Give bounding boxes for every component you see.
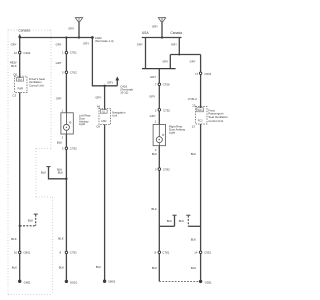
svg-text:BLK: BLK <box>167 219 172 223</box>
svg-text:BLK: BLK <box>58 237 63 241</box>
svg-text:BLK: BLK <box>57 140 62 144</box>
svg-text:BLK: BLK <box>191 266 196 270</box>
svg-text:(Terminals 1-4): (Terminals 1-4) <box>95 39 114 43</box>
svg-text:Canada: Canada <box>18 28 30 32</box>
svg-text:Light: Light <box>169 131 175 135</box>
svg-text:BLK: BLK <box>152 266 157 270</box>
svg-text:G601: G601 <box>24 280 31 284</box>
svg-text:GRY: GRY <box>162 59 168 63</box>
svg-text:BLK: BLK <box>12 266 17 270</box>
svg-text:GRY: GRY <box>171 42 177 46</box>
svg-text:PC3: PC3 <box>198 120 203 123</box>
svg-text:C752: C752 <box>163 109 170 113</box>
svg-text:C8: C8 <box>96 125 100 129</box>
svg-text:GRY: GRY <box>83 42 89 46</box>
svg-text:C792: C792 <box>70 147 77 151</box>
svg-text:GRY: GRY <box>190 59 196 63</box>
svg-text:GRY: GRY <box>107 81 113 85</box>
svg-text:13: 13 <box>192 125 196 129</box>
svg-text:BLK: BLK <box>59 266 64 270</box>
svg-text:GRY: GRY <box>150 114 156 118</box>
svg-text:LT BLU: LT BLU <box>188 97 197 101</box>
svg-text:BLK: BLK <box>96 265 101 269</box>
svg-text:BLK: BLK <box>152 152 157 156</box>
svg-text:C782: C782 <box>163 167 170 171</box>
svg-text:C762: C762 <box>70 71 77 75</box>
svg-text:G551: G551 <box>205 280 212 284</box>
svg-text:BL+: BL+ <box>18 79 23 82</box>
svg-text:BLK: BLK <box>11 64 16 68</box>
svg-text:C3: C3 <box>12 93 16 97</box>
svg-text:Unit: Unit <box>112 113 117 117</box>
svg-text:C551: C551 <box>204 251 211 255</box>
svg-text:10-12): 10-12) <box>120 90 128 94</box>
svg-text:GRY: GRY <box>137 43 143 47</box>
svg-text:BLK: BLK <box>191 238 196 242</box>
svg-text:14: 14 <box>194 251 198 255</box>
svg-text:GRY: GRY <box>149 95 155 99</box>
svg-text:C761: C761 <box>70 51 77 55</box>
svg-text:C781: C781 <box>162 251 169 255</box>
svg-text:10: 10 <box>14 251 18 255</box>
svg-text:C791: C791 <box>70 251 77 255</box>
svg-text:BLK: BLK <box>41 171 46 175</box>
svg-text:GRY: GRY <box>56 61 62 65</box>
svg-text:GRY: GRY <box>11 43 17 47</box>
svg-text:G802: G802 <box>108 280 115 284</box>
svg-text:GRY: GRY <box>95 96 101 100</box>
svg-text:USA: USA <box>142 31 150 35</box>
svg-text:GRY: GRY <box>150 75 156 79</box>
svg-text:17: 17 <box>195 72 199 76</box>
svg-text:BLK: BLK <box>191 152 196 156</box>
svg-text:C501: C501 <box>204 72 211 76</box>
svg-text:C801: C801 <box>23 251 30 255</box>
svg-text:SW+: SW+ <box>197 109 203 112</box>
svg-text:GRY: GRY <box>56 43 62 47</box>
svg-text:BLK: BLK <box>28 219 33 223</box>
svg-text:BLK: BLK <box>179 219 184 223</box>
svg-text:BLK: BLK <box>152 207 157 211</box>
svg-text:GND: GND <box>101 120 107 123</box>
svg-text:12: 12 <box>14 51 18 55</box>
svg-text:BLK: BLK <box>11 237 16 241</box>
svg-text:Light: Light <box>79 122 85 126</box>
svg-text:Control Unit: Control Unit <box>29 83 44 87</box>
svg-text:PWR: PWR <box>18 88 24 91</box>
svg-text:G501: G501 <box>70 281 77 285</box>
svg-text:BLK: BLK <box>58 171 63 175</box>
svg-text:Control Unit: Control Unit <box>208 119 223 123</box>
svg-text:Canada: Canada <box>170 31 182 35</box>
svg-text:GRY: GRY <box>68 26 74 30</box>
svg-text:C750: C750 <box>163 83 170 87</box>
svg-text:GRY: GRY <box>56 96 62 100</box>
svg-text:GRY: GRY <box>152 25 158 29</box>
svg-text:C302: C302 <box>23 51 30 55</box>
